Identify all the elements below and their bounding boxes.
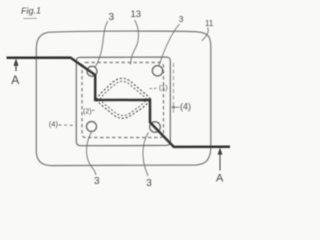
svg-text:3: 3: [179, 14, 184, 24]
svg-text:(2): (2): [83, 109, 92, 116]
svg-text:(1): (1): [159, 85, 168, 92]
svg-text:A: A: [11, 73, 19, 87]
svg-text:3: 3: [109, 12, 115, 23]
svg-text:11: 11: [205, 19, 214, 28]
leader line for numeral 11: [202, 28, 209, 41]
section arrow A left: [11, 59, 19, 88]
band strap thick line: [7, 58, 231, 147]
leader line for numeral 3 top-left: [95, 21, 108, 68]
insulator plate 13 solid square outline: [76, 57, 170, 146]
section arrow A right: [216, 148, 224, 185]
leader line for numeral 3 bottom-left: [87, 132, 96, 175]
svg-text:3: 3: [94, 176, 100, 187]
svg-text:Fig.1: Fig.1: [21, 5, 41, 16]
leader line for numeral 3 top-right: [159, 24, 180, 66]
hole 3 top-left: [87, 66, 97, 76]
hole 3 bottom-right: [150, 122, 161, 133]
leader line for numeral 13: [131, 20, 139, 65]
svg-text:13: 13: [131, 9, 142, 20]
folded article outer dashed diamond: [96, 78, 151, 118]
svg-text:3: 3: [146, 178, 152, 189]
dashed outline on plate: [82, 63, 164, 138]
svg-text:(4): (4): [180, 102, 191, 112]
leader line for numeral 3 bottom-right: [143, 133, 149, 177]
base plate 11 outer rounded rectangle: [36, 31, 211, 166]
figure label Fig.1: [21, 5, 41, 18]
svg-text:A: A: [216, 173, 224, 185]
ghost edge line right of plate: [172, 63, 174, 114]
hole 3 bottom-left: [87, 122, 97, 132]
svg-text:(4): (4): [49, 119, 59, 128]
folded article inner dashed diamond: [100, 81, 147, 115]
hole 3 top-right: [152, 66, 162, 76]
